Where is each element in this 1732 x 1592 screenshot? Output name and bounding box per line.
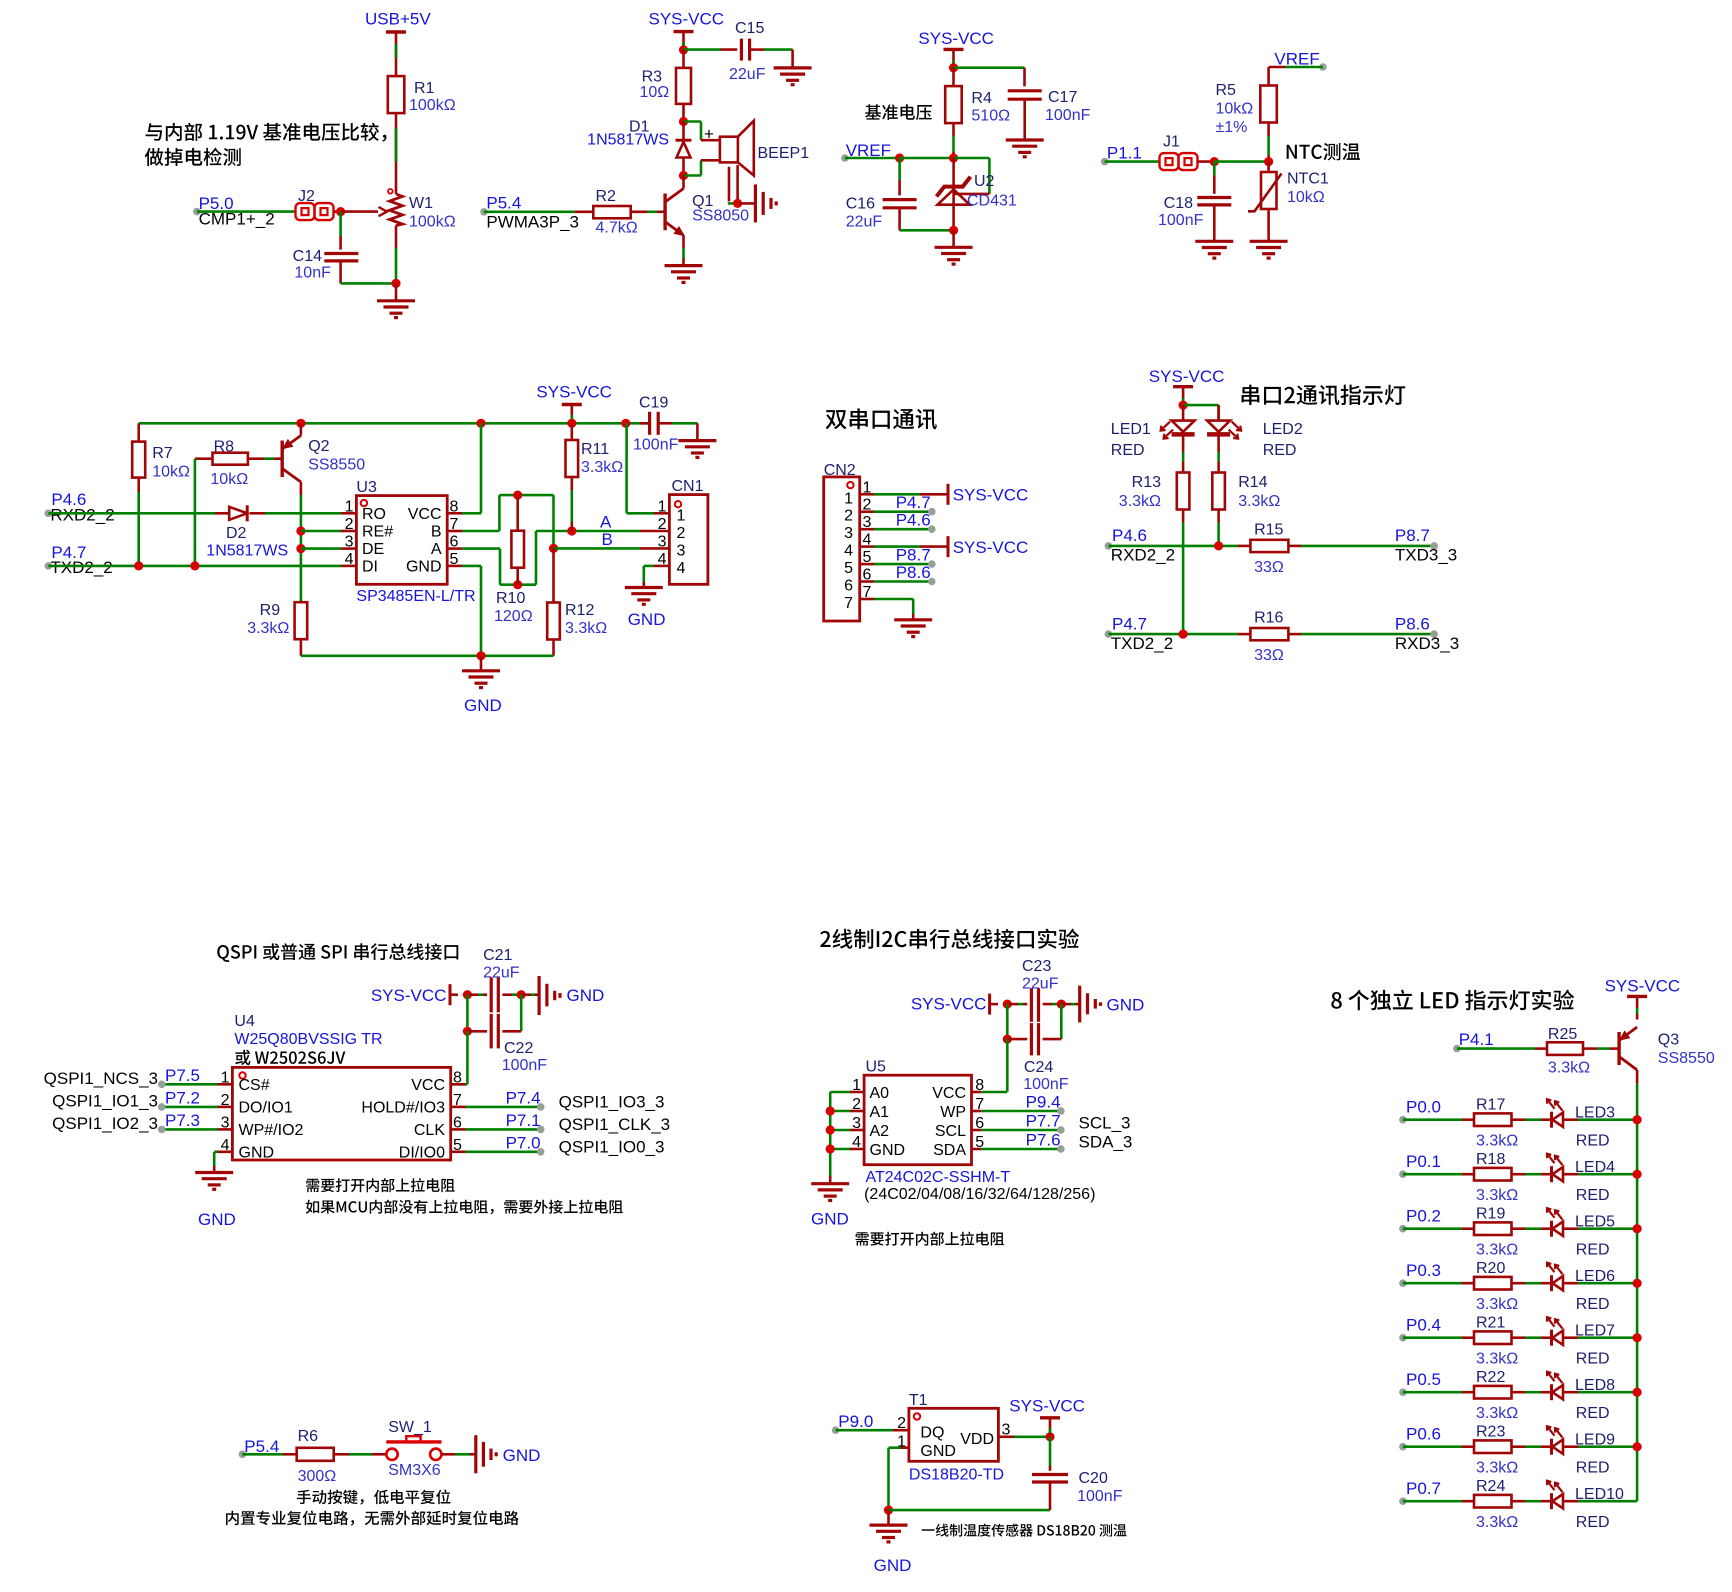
annotation [865, 104, 932, 120]
ground [195, 1171, 233, 1174]
svg-text:R21: R21 [1476, 1315, 1505, 1332]
IC T1 DS18B20 [909, 1408, 999, 1461]
wire [570, 477, 573, 490]
junction [463, 990, 472, 999]
resistor R9 [295, 602, 308, 639]
svg-text:RED: RED [1576, 1460, 1610, 1477]
wire VCC [462, 512, 481, 515]
svg-text:R2: R2 [596, 188, 617, 205]
wire to VCC pin [1006, 1039, 1009, 1092]
wire [1182, 434, 1185, 452]
svg-text:P4.6: P4.6 [896, 511, 931, 530]
wire [981, 1148, 1061, 1151]
svg-text:SCL: SCL [935, 1123, 966, 1140]
pin P4.6 [45, 510, 53, 518]
wire [1269, 66, 1285, 69]
wire [341, 530, 356, 533]
svg-text:120Ω: 120Ω [494, 608, 533, 625]
svg-text:P8.7: P8.7 [1395, 526, 1430, 545]
svg-text:C17: C17 [1048, 89, 1077, 106]
svg-text:33Ω: 33Ω [1254, 647, 1284, 664]
ground [754, 184, 757, 222]
svg-text:R8: R8 [214, 439, 235, 456]
wire [395, 62, 398, 76]
pin P4.7 [45, 562, 53, 570]
jumper J1 [1160, 153, 1179, 170]
junction D1/BEEP1+ [679, 117, 688, 126]
wire [860, 545, 874, 548]
wire [721, 48, 738, 51]
wire [682, 50, 685, 68]
wire [516, 495, 519, 531]
wire A bottom [500, 583, 536, 586]
wire [1525, 1336, 1541, 1339]
pin P5.4 [480, 208, 488, 216]
pin P4.6 [1105, 542, 1113, 550]
diode D1 [682, 122, 685, 141]
svg-text:33Ω: 33Ω [1254, 559, 1284, 576]
wire [218, 1151, 233, 1154]
resistor R4 [945, 86, 962, 123]
annotation [306, 1178, 455, 1192]
svg-text:3.3kΩ: 3.3kΩ [1476, 1187, 1518, 1204]
wire C19 to gnd [672, 422, 697, 425]
wire RXD2_2 [1108, 545, 1238, 548]
capacitor C23 [1030, 988, 1033, 1022]
svg-text:3.3kΩ: 3.3kΩ [1476, 1405, 1518, 1422]
wire [1512, 1391, 1526, 1394]
wire [1288, 545, 1301, 548]
wire VCC rail [139, 422, 649, 425]
svg-text:DS18B20-TD: DS18B20-TD [909, 1467, 1004, 1484]
svg-text:B: B [602, 530, 613, 549]
wire [1462, 1445, 1474, 1448]
wire [920, 493, 948, 496]
transistor Q1 SS8050 [663, 194, 666, 231]
wire [1238, 633, 1250, 636]
resistor R24 [1474, 1495, 1512, 1508]
wire [901, 1446, 909, 1449]
junction LED bus [1633, 1115, 1642, 1124]
svg-text:WP: WP [940, 1104, 966, 1121]
svg-text:DO/IO1: DO/IO1 [239, 1100, 293, 1117]
svg-text:100nF: 100nF [1158, 212, 1204, 229]
wire P0.0 [1403, 1118, 1462, 1121]
capacitor C16 [883, 198, 917, 201]
svg-text:RED: RED [1263, 442, 1297, 459]
junction C22 [463, 1027, 472, 1036]
wire [682, 176, 685, 189]
svg-text:±1%: ±1% [1216, 119, 1248, 136]
svg-text:CLK: CLK [414, 1122, 445, 1139]
svg-text:R13: R13 [1132, 474, 1161, 491]
wiper arrow [358, 210, 378, 213]
svg-text:D2: D2 [226, 525, 247, 542]
svg-text:2: 2 [345, 516, 354, 533]
svg-text:P9.0: P9.0 [838, 1412, 873, 1431]
ground [678, 439, 716, 442]
connector CN2 [824, 477, 860, 621]
svg-text:GND: GND [628, 610, 666, 629]
potentiometer W1 [390, 194, 403, 226]
svg-text:A: A [600, 513, 612, 532]
wire [1512, 1336, 1526, 1339]
capacitor C19 [648, 412, 651, 435]
wire [954, 193, 990, 196]
svg-text:DQ: DQ [920, 1425, 944, 1442]
svg-text:P0.4: P0.4 [1406, 1316, 1441, 1335]
svg-text:1: 1 [677, 507, 686, 524]
alt value [235, 1050, 345, 1065]
wire [502, 1030, 521, 1033]
svg-text:C16: C16 [846, 196, 875, 213]
wire to LED2 [1183, 404, 1219, 407]
wire A down [499, 549, 502, 585]
wire [395, 32, 398, 62]
IC U3 SP3485EN-L/TR [356, 496, 447, 585]
wire [981, 1129, 1061, 1132]
svg-text:1: 1 [844, 490, 853, 507]
svg-text:R12: R12 [565, 602, 594, 619]
junction [1057, 1000, 1066, 1009]
svg-text:RED: RED [1576, 1242, 1610, 1259]
wire [642, 566, 645, 582]
svg-text:R18: R18 [1476, 1151, 1505, 1168]
wire [972, 1091, 982, 1094]
junction GND [826, 1144, 835, 1153]
wire P0.7 [1403, 1500, 1462, 1503]
wire [1512, 1282, 1526, 1285]
wire pin2 [874, 510, 932, 513]
svg-text:DE: DE [362, 541, 384, 558]
wire [830, 1110, 850, 1113]
svg-text:SYS-VCC: SYS-VCC [649, 10, 725, 29]
svg-text:R7: R7 [152, 445, 173, 462]
svg-text:PWMA3P_3: PWMA3P_3 [486, 213, 579, 232]
wire [1541, 1227, 1552, 1230]
wire [893, 1429, 909, 1432]
junction R13 [1179, 630, 1188, 639]
junction LED1/LED2 [1179, 401, 1188, 410]
wire [952, 49, 955, 67]
LED LED5 [1550, 1221, 1553, 1237]
switch SW_1 [386, 1449, 397, 1460]
wire [1541, 1118, 1552, 1121]
svg-text:HOLD#/IO3: HOLD#/IO3 [361, 1100, 445, 1117]
svg-text:22uF: 22uF [1022, 976, 1059, 993]
svg-text:U5: U5 [866, 1059, 887, 1076]
svg-text:A1: A1 [870, 1104, 890, 1121]
wire [701, 159, 720, 162]
ground [1195, 240, 1233, 243]
svg-text:U4: U4 [234, 1013, 255, 1030]
wire [657, 211, 665, 214]
svg-text:R11: R11 [581, 441, 609, 458]
svg-text:3.3kΩ: 3.3kΩ [1476, 1514, 1518, 1531]
wire to C20 [1049, 1437, 1052, 1466]
svg-text:SYS-VCC: SYS-VCC [953, 538, 1029, 557]
wire [640, 530, 669, 533]
wire [1541, 1173, 1552, 1176]
svg-text:GND: GND [406, 558, 442, 575]
svg-text:Q2: Q2 [308, 438, 329, 455]
wire [1217, 434, 1220, 452]
wire [1462, 1173, 1474, 1176]
junction [517, 990, 526, 999]
svg-text:P8.6: P8.6 [1395, 615, 1430, 634]
svg-text:P0.2: P0.2 [1406, 1207, 1441, 1226]
wire [570, 490, 573, 522]
junction GND [884, 1506, 893, 1515]
wire B up [498, 495, 501, 531]
svg-text:C19: C19 [639, 395, 668, 412]
ground [462, 669, 500, 672]
wire P0.4 [1403, 1336, 1462, 1339]
svg-text:SDA_3: SDA_3 [1079, 1133, 1133, 1152]
wire [972, 1129, 982, 1132]
wire [372, 1453, 386, 1456]
svg-text:SYS-VCC: SYS-VCC [1149, 367, 1225, 386]
junction BEEP1 ground [733, 199, 742, 208]
junction RE# [296, 526, 305, 535]
wire [1512, 1118, 1526, 1121]
wire [696, 423, 699, 440]
wire QSPI1_CLK_3 [466, 1128, 541, 1131]
wire [341, 547, 356, 550]
wire [952, 152, 955, 158]
svg-text:3.3kΩ: 3.3kΩ [1476, 1296, 1518, 1313]
wire [480, 656, 483, 671]
wire [1512, 1500, 1526, 1503]
wire QSPI1_IO3_3 [466, 1106, 541, 1109]
wire [466, 995, 469, 1032]
wire P0.6 [1403, 1445, 1462, 1448]
svg-text:GND: GND [874, 1556, 912, 1575]
pin P0.2 [1399, 1225, 1407, 1233]
capacitor C18 [1197, 196, 1231, 199]
junction LED bus [1633, 1333, 1642, 1342]
LED LED1 [1172, 421, 1195, 432]
svg-text:GND: GND [811, 1210, 849, 1229]
pin VREF [1319, 63, 1327, 71]
svg-text:RED: RED [1576, 1187, 1610, 1204]
wire [1512, 1445, 1526, 1448]
wire [521, 993, 531, 996]
svg-text:GND: GND [920, 1443, 956, 1460]
transistor Q3 SS8550 [1617, 1032, 1620, 1065]
wire P0.5 [1403, 1391, 1462, 1394]
svg-text:RXD2_2: RXD2_2 [50, 506, 114, 525]
wire Q2 collector to R9 [300, 495, 303, 602]
wire [981, 1110, 1061, 1113]
wire [1636, 1008, 1639, 1014]
wire [887, 1448, 890, 1510]
resistor R17 [1474, 1113, 1512, 1126]
svg-text:4: 4 [677, 560, 686, 577]
svg-text:R10: R10 [496, 590, 525, 607]
wire to bus [1578, 1336, 1637, 1339]
wire [1525, 1227, 1541, 1230]
svg-text:NTC1: NTC1 [1287, 171, 1329, 188]
svg-text:RO: RO [362, 506, 386, 523]
svg-text:C14: C14 [293, 248, 322, 265]
wire [339, 261, 342, 284]
wire [1541, 1336, 1552, 1339]
svg-text:SYS-VCC: SYS-VCC [1009, 1397, 1085, 1416]
svg-text:VCC: VCC [411, 1077, 445, 1094]
LED LED6 [1550, 1275, 1553, 1291]
wire [1217, 462, 1220, 473]
wire [467, 1030, 487, 1033]
wire [791, 50, 794, 68]
wire [1610, 1047, 1619, 1050]
wire [395, 283, 398, 300]
pin P7.1 [537, 1126, 545, 1134]
junction LED bus [1633, 1442, 1642, 1451]
wire [1182, 405, 1185, 421]
wire [640, 547, 669, 550]
svg-text:RE#: RE# [362, 524, 393, 541]
wire [1462, 1118, 1474, 1121]
svg-text:W25Q80BVSSIG TR: W25Q80BVSSIG TR [234, 1031, 382, 1048]
wire [898, 208, 901, 231]
svg-text:CD431: CD431 [967, 193, 1017, 210]
svg-text:SCL_3: SCL_3 [1079, 1114, 1131, 1133]
wire [478, 993, 483, 996]
wire [520, 995, 523, 1032]
wire [466, 1083, 468, 1086]
wire [570, 405, 573, 424]
wire [1043, 1003, 1052, 1006]
junction C24 [1003, 1035, 1012, 1044]
wire [728, 202, 735, 205]
wire QSPI1_IO1_3 [162, 1106, 218, 1109]
wire [451, 1106, 466, 1109]
wire R14 to RXD [1217, 522, 1220, 546]
wire [1213, 176, 1216, 194]
section title [826, 408, 937, 429]
svg-text:+: + [704, 125, 714, 144]
resistor R18 [1474, 1168, 1512, 1181]
junction C16 [895, 153, 904, 162]
svg-text:P7.6: P7.6 [1026, 1131, 1061, 1150]
wire [889, 1446, 902, 1449]
wire [1541, 1391, 1552, 1394]
wire to bus [1578, 1173, 1637, 1176]
wire VCC [981, 1091, 1007, 1094]
wire [920, 545, 948, 548]
wire [750, 48, 764, 51]
wire [860, 528, 874, 531]
junction R4/C17 [949, 63, 958, 72]
svg-text:P1.1: P1.1 [1107, 144, 1142, 163]
wire to REF [954, 157, 990, 160]
svg-text:J1: J1 [1163, 134, 1180, 151]
ground [894, 618, 932, 621]
junction R12 top [549, 544, 558, 553]
svg-text:VREF: VREF [1274, 50, 1319, 69]
resistor R22 [1474, 1386, 1512, 1399]
wire RXD2_2 [48, 512, 215, 515]
resistor R10 [511, 531, 524, 568]
svg-text:W1: W1 [409, 195, 433, 212]
wire [682, 104, 685, 122]
section title [1331, 990, 1574, 1011]
svg-text:SS8550: SS8550 [308, 457, 365, 474]
wire CN1 pin4 [644, 565, 654, 568]
wire [860, 510, 874, 513]
svg-text:CN1: CN1 [672, 478, 704, 495]
junction R14 [1214, 541, 1223, 550]
buzzer BEEP1 [720, 137, 738, 163]
wire QSPI1_IO2_3 [162, 1128, 218, 1131]
wire [1564, 1173, 1578, 1176]
svg-text:3.3kΩ: 3.3kΩ [1476, 1460, 1518, 1477]
svg-text:J2: J2 [298, 188, 315, 205]
wire P9.0 [836, 1429, 893, 1432]
svg-text:3: 3 [844, 525, 853, 542]
svg-text:GND: GND [239, 1145, 275, 1162]
wire [283, 1453, 297, 1456]
svg-text:SDA: SDA [933, 1142, 966, 1159]
wire [1636, 996, 1639, 1008]
svg-text:4: 4 [844, 543, 853, 560]
svg-text:P4.6: P4.6 [1112, 526, 1147, 545]
svg-text:WP#/IO2: WP#/IO2 [239, 1122, 304, 1139]
power SYS-VCC bar [1173, 385, 1193, 388]
junction VDD [1045, 1432, 1054, 1441]
svg-text:SM3X6: SM3X6 [388, 1462, 441, 1479]
pin P5.0 [193, 208, 201, 216]
pin P5.4 [239, 1451, 247, 1459]
pin VREF [841, 154, 849, 162]
wire [1076, 1003, 1080, 1006]
svg-text:SYS-VCC: SYS-VCC [1605, 977, 1681, 996]
wire to bus [1578, 1500, 1637, 1503]
wire [850, 1148, 864, 1151]
wire pin4 [874, 545, 920, 548]
svg-text:P4.1: P4.1 [1459, 1030, 1494, 1049]
svg-text:P0.7: P0.7 [1406, 1479, 1441, 1498]
svg-text:P7.4: P7.4 [506, 1088, 541, 1107]
wire [1541, 1445, 1552, 1448]
svg-text:4: 4 [345, 551, 354, 568]
capacitor C15 [740, 39, 743, 61]
wire [1182, 510, 1185, 523]
wire [952, 136, 955, 152]
wire [700, 160, 703, 175]
pin P4.7 [1105, 630, 1113, 638]
wire [447, 547, 462, 550]
power SYS-VCC bar [1040, 1416, 1060, 1419]
svg-text:RED: RED [1576, 1405, 1610, 1422]
resistor R20 [1474, 1277, 1512, 1290]
svg-text:C22: C22 [504, 1040, 533, 1057]
svg-text:SYS-VCC: SYS-VCC [953, 486, 1029, 505]
wire R7 to TXD [137, 492, 140, 565]
svg-text:100nF: 100nF [1023, 1076, 1069, 1093]
junction at J2/C14 [336, 207, 345, 216]
wire [442, 1453, 456, 1456]
wire [1564, 1282, 1578, 1285]
svg-text:SYS-VCC: SYS-VCC [911, 995, 987, 1014]
pin P0.0 [1399, 1116, 1407, 1124]
svg-text:GND: GND [198, 1210, 236, 1229]
wire [137, 478, 140, 492]
svg-text:RED: RED [1576, 1351, 1610, 1368]
wire P0.3 [1403, 1282, 1462, 1285]
wire [1564, 1118, 1578, 1121]
